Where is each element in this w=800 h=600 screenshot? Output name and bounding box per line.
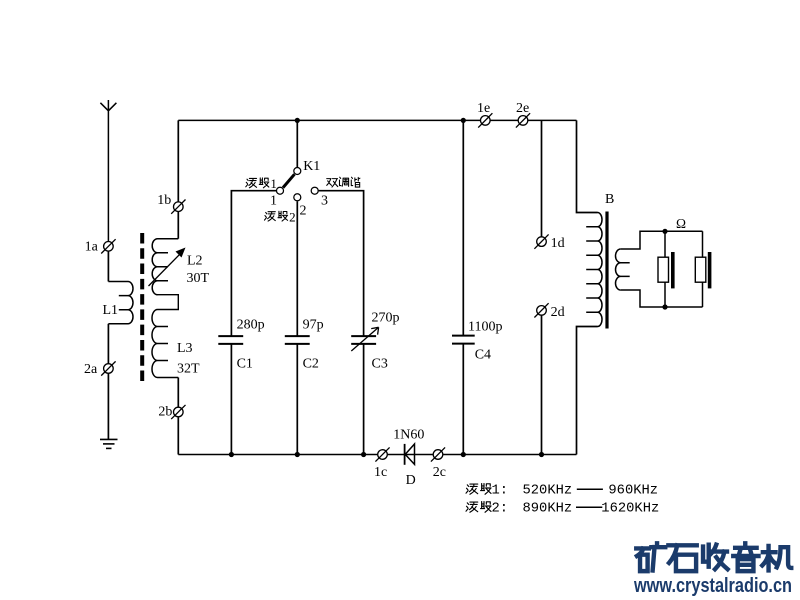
wire	[177, 120, 179, 201]
svg-text:L2: L2	[187, 254, 203, 269]
svg-text:97p: 97p	[303, 318, 324, 333]
wire	[107, 324, 109, 364]
svg-text:Ω: Ω	[676, 216, 686, 231]
svg-text:2c: 2c	[433, 465, 446, 480]
wire	[296, 120, 298, 167]
inductor L2	[152, 239, 178, 295]
terminal 1b	[171, 200, 185, 214]
svg-text:2: 2	[289, 209, 296, 224]
svg-text:D: D	[406, 473, 416, 488]
svg-text:C1: C1	[237, 357, 253, 372]
terminal 2e	[516, 113, 530, 127]
wire earphone loop	[621, 231, 703, 307]
svg-text:960KHz: 960KHz	[608, 484, 658, 499]
transformer B core	[605, 212, 608, 329]
wire	[177, 378, 179, 408]
terminal 1a	[101, 239, 115, 253]
svg-text:B: B	[605, 192, 614, 207]
node earphone top	[662, 229, 667, 234]
wire top bus	[178, 119, 576, 121]
svg-text:2: 2	[300, 204, 307, 219]
node bottom bus C2	[295, 452, 300, 457]
svg-text:30T: 30T	[187, 271, 210, 286]
wire contact1 to C1	[231, 191, 276, 336]
svg-text:1: 1	[270, 176, 277, 191]
wire	[577, 327, 598, 455]
text band1 frequency range	[466, 484, 658, 499]
svg-text:C2: C2	[303, 357, 319, 372]
variable inductor arrow L2	[149, 248, 186, 287]
svg-text:K1: K1	[303, 159, 320, 174]
svg-text:520KHz: 520KHz	[523, 484, 573, 499]
transformer core (L1/L2/L3)	[140, 233, 144, 381]
wire	[177, 212, 179, 239]
svg-text:3: 3	[321, 194, 328, 209]
label 双调谐 (double tuned)	[327, 177, 360, 187]
svg-text:L1: L1	[103, 303, 119, 318]
wire bottom bus	[178, 454, 576, 456]
wire	[296, 344, 298, 455]
node bottom bus C3	[361, 452, 366, 457]
node bottom bus C1	[229, 452, 234, 457]
svg-text:890KHz: 890KHz	[523, 502, 573, 517]
svg-text:1a: 1a	[85, 240, 99, 255]
inductor L1	[108, 282, 133, 324]
svg-text:2:: 2:	[492, 502, 509, 517]
wire L2-L3 junction	[158, 295, 179, 310]
terminal 2b	[171, 405, 185, 419]
logo 矿石收音机	[636, 543, 791, 571]
node bottom bus 2d line	[539, 452, 544, 457]
svg-text:1:: 1:	[492, 484, 509, 499]
diode D 1N60	[405, 444, 415, 465]
svg-text:2e: 2e	[516, 101, 529, 116]
terminal 1d	[534, 234, 548, 248]
wire	[577, 120, 598, 212]
inductor L3	[152, 310, 178, 378]
svg-text:2d: 2d	[551, 305, 565, 320]
svg-text:2b: 2b	[158, 405, 172, 420]
wire	[230, 344, 232, 455]
earphone 2	[695, 252, 711, 288]
svg-text:280p: 280p	[237, 318, 265, 333]
wire	[462, 120, 464, 335]
svg-text:2a: 2a	[84, 362, 98, 377]
svg-text:1b: 1b	[157, 193, 171, 208]
terminal 1c	[375, 447, 389, 461]
wire contact2 to C2	[296, 201, 298, 336]
svg-text:C3: C3	[372, 357, 388, 372]
svg-text:1d: 1d	[551, 236, 565, 251]
svg-text:1c: 1c	[374, 465, 387, 480]
wire	[363, 344, 365, 455]
terminal 1e	[478, 113, 492, 127]
terminal 2c	[431, 447, 445, 461]
svg-text:1: 1	[270, 194, 277, 209]
svg-text:1N60: 1N60	[393, 427, 424, 442]
switch K1	[277, 168, 319, 201]
svg-text:C4: C4	[475, 348, 491, 363]
svg-text:32T: 32T	[177, 361, 200, 376]
capacitor C3 (variable)	[351, 327, 378, 351]
svg-text:1e: 1e	[477, 101, 490, 116]
wire	[462, 344, 464, 455]
antenna	[100, 100, 116, 241]
svg-text:1100p: 1100p	[468, 320, 502, 335]
text band2 frequency range	[466, 502, 659, 517]
capacitor C1	[218, 336, 243, 344]
label 波段2 (band2)	[264, 209, 295, 224]
transformer B secondary	[616, 249, 630, 290]
capacitor C2	[285, 336, 310, 344]
svg-text:L3: L3	[177, 341, 193, 356]
transformer B primary	[586, 213, 602, 327]
node C4 tap	[461, 118, 466, 123]
svg-text:270p: 270p	[372, 310, 400, 325]
capacitor C4	[452, 336, 475, 344]
ground	[100, 439, 118, 448]
wire	[107, 251, 109, 281]
svg-text:www.crystalradio.cn: www.crystalradio.cn	[633, 575, 792, 597]
node earphone bottom	[662, 304, 667, 309]
wire	[541, 120, 543, 236]
wire	[177, 417, 179, 454]
wire	[107, 374, 109, 440]
terminal 2d	[534, 303, 548, 317]
terminal 2a	[101, 361, 115, 375]
node bottom bus C4	[461, 452, 466, 457]
wire contact3 to C3	[319, 191, 364, 336]
earphone 1	[658, 252, 675, 288]
node K1 tap	[295, 118, 300, 123]
wire	[541, 316, 543, 455]
label 波段1 (band1)	[246, 176, 277, 191]
svg-text:1620KHz: 1620KHz	[601, 502, 659, 517]
